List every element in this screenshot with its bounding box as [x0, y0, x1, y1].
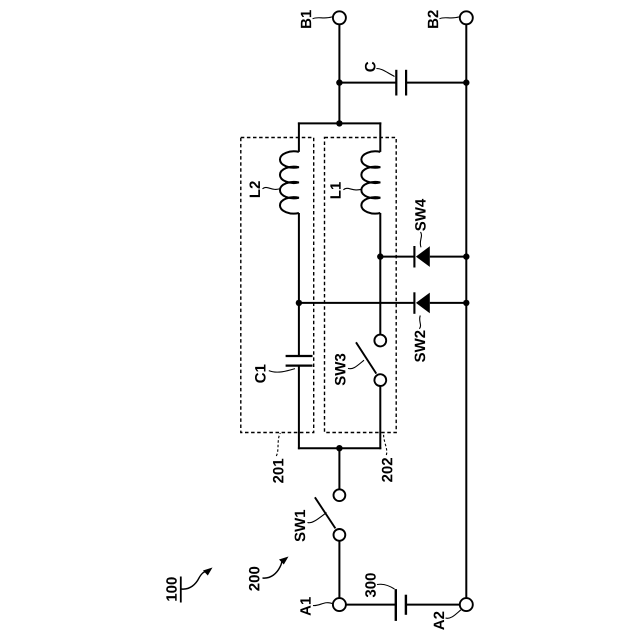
junction dot B1-C [336, 79, 342, 85]
leader 201 [276, 433, 280, 456]
junction dot SW4 right [463, 253, 469, 259]
inductor L2 [280, 151, 299, 213]
wire SW4 row left [380, 256, 414, 258]
dashed box 202 [325, 138, 397, 433]
switch SW3 [356, 335, 386, 386]
wire capacitor C left [339, 82, 396, 84]
leader SW4 [420, 232, 421, 247]
junction dot bottom rail [336, 445, 342, 451]
terminal A1 [333, 598, 346, 611]
label L2 [249, 181, 259, 197]
label SW1 [295, 510, 306, 542]
wire capacitor 300 to A2 [406, 604, 460, 606]
leader SW1 [308, 513, 327, 523]
label B1 [301, 10, 311, 28]
wire right rail B2 to A2 [465, 25, 467, 598]
arrow 200 [263, 557, 289, 579]
label A2 [434, 612, 444, 630]
leader C [376, 69, 394, 77]
label 201 [273, 459, 284, 483]
leader A1 [313, 603, 332, 606]
wire SW3 to bottom rail [379, 386, 381, 449]
top rail wire [298, 122, 381, 124]
wire SW2 row left [299, 302, 415, 304]
wire top rail to L1 [379, 122, 381, 151]
label A1 [300, 597, 310, 615]
wire A1 to capacitor 300 [346, 604, 396, 606]
terminal A2 [460, 598, 473, 611]
label 200 [249, 567, 260, 591]
dashed box 201 [241, 138, 314, 433]
leader B2 [440, 17, 460, 19]
wire C1 to bottom rail [298, 366, 300, 450]
wire L2 to C1 [298, 213, 300, 356]
bottom rail wire [298, 447, 381, 449]
wire capacitor C right [406, 82, 466, 84]
terminal B2 [460, 11, 473, 24]
label C1 [255, 365, 266, 383]
junction dot SW4 left [377, 253, 383, 259]
wire SW4 row right [430, 256, 467, 258]
capacitor C1 [286, 356, 313, 366]
leader L1 [343, 188, 362, 190]
label B2 [428, 10, 438, 28]
wire SW2 row right [430, 302, 467, 304]
label SW4 [415, 199, 426, 231]
diode SW2 [414, 292, 429, 314]
label 202 [382, 458, 393, 482]
leader 202 [384, 433, 387, 455]
inductor L1 [361, 151, 380, 213]
wire B1 terminal to top rail [338, 25, 340, 124]
switch SW1 [315, 489, 345, 540]
junction dot B2-C [463, 79, 469, 85]
wire top rail to L2 [298, 122, 300, 151]
wire L1 to SW3 [379, 213, 381, 334]
leader 300 [377, 584, 395, 589]
terminal B1 [333, 11, 346, 24]
leader L2 [263, 187, 281, 189]
label SW3 [335, 354, 346, 386]
arrow 100 [182, 568, 213, 590]
leader SW2 [419, 316, 420, 329]
label 100 [166, 577, 181, 603]
label SW2 [415, 331, 426, 362]
leader B1 [313, 17, 332, 19]
junction dot top rail [336, 120, 342, 126]
label 300 [365, 573, 376, 597]
leader A2 [446, 610, 461, 618]
label L1 [330, 182, 340, 198]
leader C1 [269, 369, 295, 373]
diode SW4 [414, 246, 429, 268]
junction dot SW2 left [296, 300, 302, 306]
wire bottom rail to SW1 [338, 448, 340, 489]
label C [365, 62, 376, 72]
wire SW1 to A1 [338, 541, 340, 598]
capacitor 300 [396, 589, 406, 621]
junction dot SW2 right [463, 300, 469, 306]
capacitor C [395, 70, 397, 96]
leader SW3 [348, 360, 364, 369]
